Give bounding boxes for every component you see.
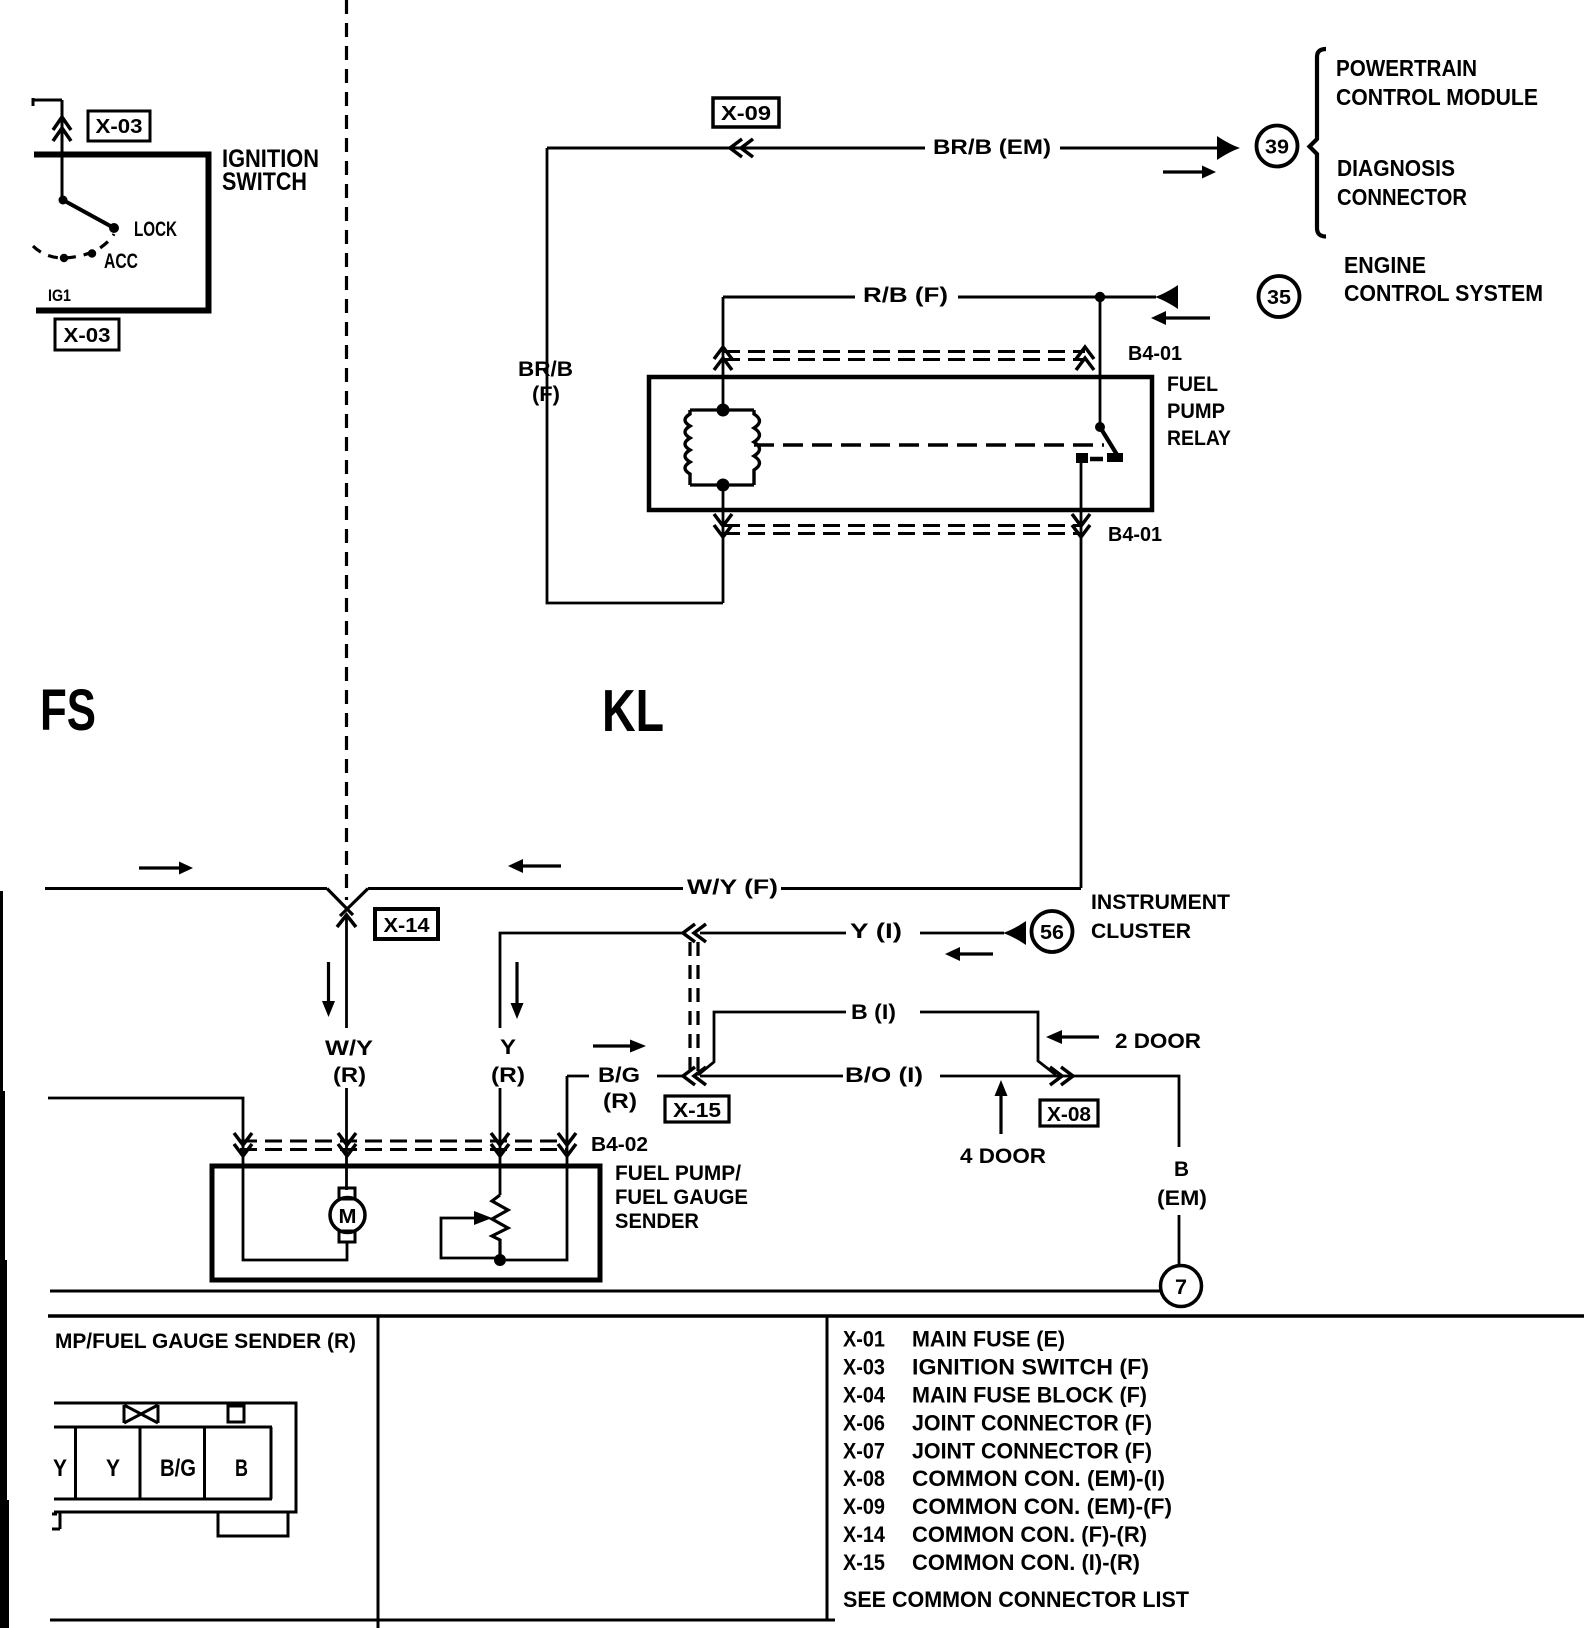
wire B/O (I) [700,1076,1179,1147]
svg-text:R/B (F): R/B (F) [863,284,948,307]
svg-text:Y: Y [53,1455,67,1482]
connector X-09 chevrons on wire [730,139,753,157]
svg-text:B (I): B (I) [851,1001,896,1024]
connector label X-14 [375,909,438,939]
svg-text:39: 39 [1265,137,1289,159]
connector label X-09 [713,98,779,127]
connector X-15 chevrons on B/G wire [683,1067,706,1085]
relay coil K1 [685,404,760,492]
wire sender feed left [48,1098,347,1260]
connector list X-09 [843,1494,1172,1519]
switch blade to LOCK [63,200,114,228]
ground point 7 circle [1161,1266,1202,1307]
svg-text:COMMON CON. (I)-(R): COMMON CON. (I)-(R) [912,1550,1140,1575]
flow arrow left (from 56) [945,947,993,961]
table bottom border [50,1619,835,1622]
B4-01 bottom chevrons right [1072,514,1090,537]
svg-text:ENGINE: ENGINE [1344,252,1426,278]
svg-text:CLUSTER: CLUSTER [1091,920,1191,943]
svg-text:B4-02: B4-02 [591,1134,648,1156]
flow arrow right (to 39) [1163,166,1216,179]
relay linkage dashed [754,443,1104,447]
pinout index square [228,1406,244,1422]
svg-text:CONNECTOR: CONNECTOR [1337,184,1467,210]
table divider 2 [826,1317,829,1619]
svg-text:COMMON CON. (EM)-(F): COMMON CON. (EM)-(F) [912,1494,1172,1519]
label B/G (R) [598,1064,640,1113]
flow arrow right on W/Y [139,862,193,875]
B4-02 chevron at 243 [234,1133,252,1156]
svg-text:JOINT CONNECTOR (F): JOINT CONNECTOR (F) [912,1411,1152,1436]
wire Y (R) [499,1088,502,1195]
bracket powertrain control module / diagnosis connector [1310,49,1327,237]
svg-text:56: 56 [1040,922,1064,944]
svg-text:B4-01: B4-01 [1108,524,1162,546]
junction node sender common [494,1254,506,1266]
svg-text:JOINT CONNECTOR (F): JOINT CONNECTOR (F) [912,1439,1152,1464]
svg-text:B: B [1174,1158,1189,1181]
arrow into pin 39 [1217,136,1240,160]
flow arrow down W/Y (R) [322,962,335,1017]
fuel pump / fuel gauge sender box [212,1166,600,1280]
svg-text:X-08: X-08 [843,1466,885,1491]
svg-text:B: B [235,1455,248,1482]
connector X-15 chevrons on Y wire [683,924,706,942]
svg-text:X-07: X-07 [843,1439,885,1464]
flow arrow right B/G [593,1040,646,1053]
svg-text:(R): (R) [333,1064,366,1087]
svg-text:7: 7 [1175,1276,1187,1299]
pinout keyway bowtie [124,1405,158,1423]
svg-text:X-04: X-04 [843,1383,886,1408]
svg-text:RELAY: RELAY [1167,427,1231,450]
svg-text:MAIN FUSE (E): MAIN FUSE (E) [912,1327,1065,1352]
pinout terminal row [54,1427,272,1499]
svg-text:CONTROL MODULE: CONTROL MODULE [1336,84,1538,110]
svg-text:W/Y (F): W/Y (F) [687,876,778,899]
connector B4-01 bottom dashed pair [723,526,1081,534]
label W/Y (R) [325,1037,373,1087]
wire W/Y (F) left [45,887,327,890]
connector label X-08 [1040,1100,1098,1126]
svg-text:COMMON CON. (F)-(R): COMMON CON. (F)-(R) [912,1522,1147,1547]
relay switch contact [1076,422,1123,463]
svg-text:SWITCH: SWITCH [222,168,307,196]
svg-text:ACC: ACC [104,250,138,273]
wire relay coil return [722,485,725,603]
connector label X-03 (bottom) [55,319,119,350]
connector list X-07 [843,1439,1152,1464]
svg-text:B/G: B/G [598,1064,640,1087]
connector X-03 top pass-through symbol [53,117,71,141]
svg-text:BR/B (EM): BR/B (EM) [933,136,1051,159]
label 2 DOOR with arrow [1046,1030,1201,1053]
table top border [48,1314,1584,1318]
svg-text:X-01: X-01 [843,1327,885,1352]
wire BR/B (F) vertical run [547,148,723,603]
B4-02 chevron at 347 [338,1133,356,1156]
label BR/B (F) [518,358,573,406]
svg-text:X-09: X-09 [721,103,771,125]
connector X-15 double dashed link [690,942,698,1072]
svg-text:X-03: X-03 [64,325,111,347]
flow arrow left (from 35) [1151,311,1210,325]
svg-text:Y: Y [500,1036,516,1059]
junction node on R/B [1095,292,1105,302]
svg-text:Y: Y [106,1455,120,1482]
label POWERTRAIN CONTROL MODULE [1336,55,1538,110]
svg-text:FUEL PUMP/: FUEL PUMP/ [615,1162,741,1185]
table divider 1 [377,1317,380,1628]
wire IG feed inside switch [61,157,64,200]
svg-text:X-03: X-03 [96,116,143,138]
svg-text:IGNITION SWITCH (F): IGNITION SWITCH (F) [912,1355,1149,1380]
connector list X-08 [843,1466,1165,1491]
label 4 DOOR with arrow [960,1080,1046,1168]
svg-text:KL: KL [602,678,664,744]
connector list X-04 [843,1383,1147,1408]
node: switch pivot [59,196,68,205]
svg-text:BR/B: BR/B [518,358,573,381]
flow arrow down Y (R) [511,962,524,1019]
wire relay coil feed [722,297,725,410]
svg-text:(F): (F) [532,383,560,406]
wire BR/B (EM) [547,147,1220,150]
svg-text:MP/FUEL GAUGE SENDER (R): MP/FUEL GAUGE SENDER (R) [55,1330,356,1353]
label B (EM) [1157,1158,1207,1210]
wire B (EM) [1178,1215,1181,1265]
svg-text:X-15: X-15 [673,1100,721,1122]
wire Y (I) [500,933,1004,1028]
ignition switch box [34,155,209,311]
svg-text:B4-01: B4-01 [1128,343,1182,365]
arrow from pin 56 [1003,921,1026,945]
pinout bottom tab [218,1512,288,1536]
wire: ignition switch feed stub [33,98,62,153]
wire B/G (R) [506,1076,683,1260]
B4-02 chevron at 500 [491,1133,509,1156]
svg-text:X-03: X-03 [843,1355,885,1380]
svg-text:2 DOOR: 2 DOOR [1115,1030,1201,1053]
svg-text:(R): (R) [603,1090,637,1113]
wire ground bus to point 7 [50,1290,1160,1293]
contact dot on arc 1 [60,254,68,262]
connector list X-14 [843,1522,1147,1547]
svg-text:(EM): (EM) [1157,1187,1207,1210]
label Y (R) [491,1036,525,1087]
contact ACC dot [88,249,96,257]
svg-text:LOCK: LOCK [134,218,177,241]
svg-text:X-14: X-14 [843,1522,886,1547]
connector B4-01 top dashed pair [723,352,1085,360]
svg-text:(R): (R) [491,1064,525,1087]
svg-text:INSTRUMENT: INSTRUMENT [1091,891,1230,914]
flow arrow left on W/Y [508,859,561,873]
resistor wiper arrow [441,1211,496,1258]
section divider dashed line FS/KL [345,0,348,900]
label IGNITION SWITCH [222,145,319,196]
connector X-08 chevrons [1050,1067,1073,1085]
fuel gauge sender resistor [492,1195,508,1260]
svg-text:MAIN FUSE BLOCK (F): MAIN FUSE BLOCK (F) [912,1383,1147,1408]
contact LOCK [109,223,119,233]
motor M fuel pump [330,1188,365,1242]
connector pinout outer box [54,1403,296,1512]
connector list X-01 [843,1327,1065,1352]
label DIAGNOSIS CONNECTOR [1337,155,1467,210]
connector B4-02 dashed pair [240,1141,567,1150]
svg-text:Y (I): Y (I) [850,920,902,943]
svg-text:FUEL GAUGE: FUEL GAUGE [615,1186,748,1209]
wire R/B (F) [723,296,1156,299]
label ENGINE CONTROL SYSTEM [1344,252,1543,306]
arrow from pin 35 [1155,285,1178,309]
svg-text:M: M [339,1206,357,1228]
svg-text:FS: FS [40,678,96,743]
wire B (I) [698,1012,1056,1075]
label INSTRUMENT CLUSTER [1091,891,1230,943]
svg-text:SEE COMMON CONNECTOR LIST: SEE COMMON CONNECTOR LIST [843,1587,1190,1612]
svg-text:4 DOOR: 4 DOOR [960,1145,1046,1168]
wire W/Y (R) [345,916,348,1190]
connector list X-06 [843,1411,1152,1436]
svg-text:X-14: X-14 [384,915,431,937]
svg-text:B/O (I): B/O (I) [845,1064,923,1087]
svg-text:35: 35 [1267,287,1291,309]
svg-text:CONTROL SYSTEM: CONTROL SYSTEM [1344,280,1543,306]
wire relay switch output [1080,457,1083,888]
pin 56 circle [1032,911,1073,952]
label FUEL PUMP / FUEL GAUGE SENDER [615,1162,748,1233]
B4-01 bottom chevrons left [714,514,732,537]
pin 35 circle [1259,276,1300,317]
B4-01 top chevrons right [1076,347,1094,370]
wire W/Y (F) right [368,887,1081,890]
svg-text:FUEL: FUEL [1167,373,1218,396]
connector list X-15 [843,1550,1140,1575]
pin 39 circle [1257,126,1298,167]
svg-text:X-06: X-06 [843,1411,885,1436]
svg-text:POWERTRAIN: POWERTRAIN [1336,55,1477,81]
svg-text:IG1: IG1 [48,286,71,305]
label FUEL PUMP RELAY [1167,373,1231,450]
B4-02 chevron at 567 [558,1133,576,1156]
svg-text:B/G: B/G [160,1455,196,1482]
svg-text:X-08: X-08 [1047,1104,1091,1126]
connector label X-15 [665,1096,729,1122]
svg-text:SENDER: SENDER [615,1210,699,1233]
svg-text:COMMON CON. (EM)-(I): COMMON CON. (EM)-(I) [912,1466,1165,1491]
svg-text:PUMP: PUMP [1167,400,1225,423]
switch travel dashed arc [33,234,114,258]
B4-01 top chevrons left [714,347,732,370]
svg-text:W/Y: W/Y [325,1037,373,1060]
svg-text:DIAGNOSIS: DIAGNOSIS [1337,155,1455,181]
connector list X-03 [843,1355,1149,1380]
connector label X-03 (top) [88,111,150,141]
wire to relay switch [1099,297,1102,425]
pinout left tab [52,1512,60,1529]
fuel pump relay box [649,377,1152,510]
connector X-14 crossing symbol [327,889,368,928]
svg-text:X-15: X-15 [843,1550,885,1575]
svg-text:X-09: X-09 [843,1494,885,1519]
